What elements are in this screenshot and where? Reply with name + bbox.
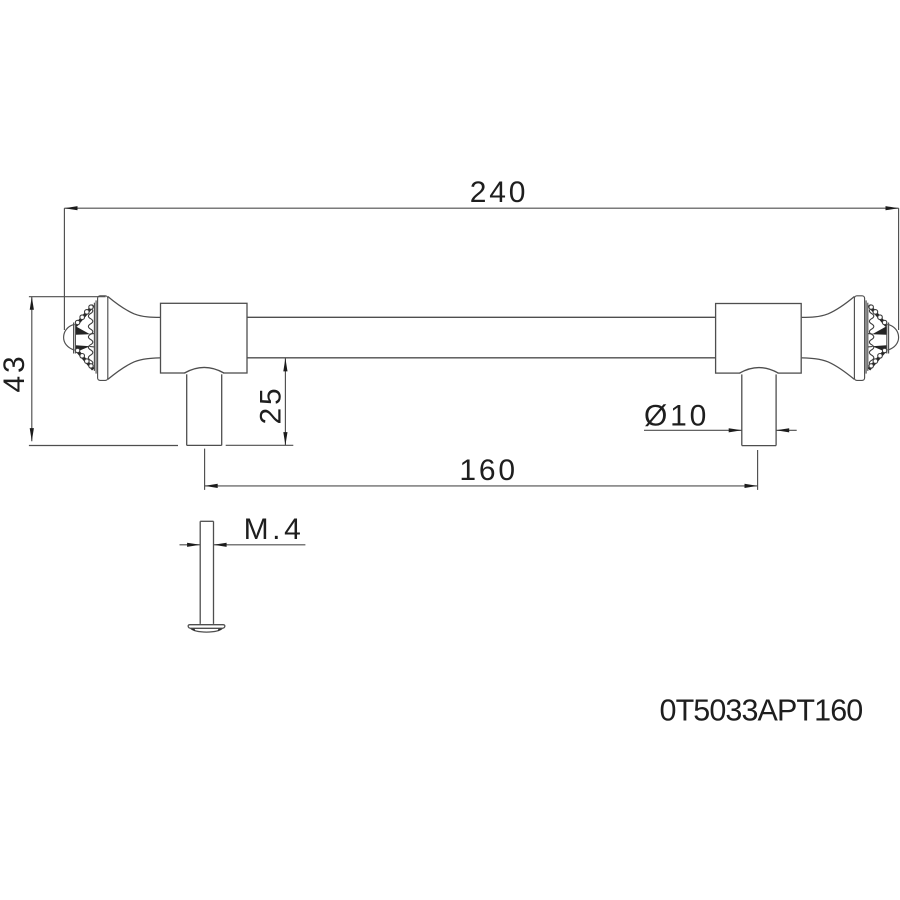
collar band disc xyxy=(98,296,108,381)
right post top fillet arc xyxy=(740,368,779,374)
dim 240 right extension xyxy=(898,208,900,330)
dim M4 left line xyxy=(180,544,201,546)
dim dia10 left line xyxy=(644,429,742,431)
bead bottom 2 xyxy=(80,354,85,359)
screw shaft left xyxy=(199,521,201,624)
trumpet bottom curve xyxy=(108,358,161,380)
right post left side xyxy=(741,373,743,446)
arrow 160 left xyxy=(205,484,218,488)
crown wedge lower xyxy=(76,345,90,352)
dim 240 line xyxy=(64,207,898,209)
left mounting block xyxy=(161,303,248,373)
svg-text:160: 160 xyxy=(459,454,517,487)
arrow 43 top xyxy=(30,297,34,310)
arrow 240 left xyxy=(64,206,77,210)
dome base line 1 xyxy=(73,323,75,354)
screw shaft top xyxy=(200,520,213,522)
dim 43 line xyxy=(31,297,33,442)
dim M4 right line xyxy=(214,544,306,546)
right finial (mirror of left) xyxy=(802,296,899,381)
arrow dia10 left (points right) xyxy=(729,428,742,432)
left finial group xyxy=(64,296,161,381)
arrow 25 bottom xyxy=(283,432,287,445)
dim 25 line xyxy=(284,359,286,446)
dimension graphics xyxy=(29,208,899,545)
handle bar top line xyxy=(247,316,716,318)
svg-text:Ø10: Ø10 xyxy=(644,399,709,432)
screw shaft right xyxy=(213,521,215,624)
bead top 2 xyxy=(80,315,85,320)
right mounting block xyxy=(716,304,802,374)
bead bottom 4 xyxy=(89,364,93,368)
bead top 3 xyxy=(85,310,90,315)
left post top fillet arc xyxy=(185,367,224,373)
crown wedge upper xyxy=(76,326,90,335)
dim texts xyxy=(0,176,709,546)
handle bar bottom line xyxy=(247,357,716,359)
trumpet top curve xyxy=(108,297,161,318)
svg-text:43: 43 xyxy=(0,354,31,393)
svg-text:25: 25 xyxy=(254,386,287,425)
bead bottom 3 xyxy=(85,359,90,364)
dome button tip xyxy=(64,325,74,350)
dim 160 line xyxy=(205,485,758,487)
crown top shade band xyxy=(76,305,94,326)
petal groove lower xyxy=(90,346,95,348)
svg-text:240: 240 xyxy=(470,176,528,209)
arrow M4 right (points left) xyxy=(214,543,227,547)
arrow 43 bottom xyxy=(30,428,34,441)
thin ring line 1 xyxy=(93,303,95,371)
petal groove upper xyxy=(90,333,95,335)
screw head shadow left xyxy=(190,629,195,631)
screw head shadow right xyxy=(218,629,223,631)
left post bottom xyxy=(187,444,222,446)
left post left side xyxy=(186,373,188,445)
dim 25 bottom extension xyxy=(226,444,294,446)
dim 240 left extension xyxy=(63,208,65,330)
arrow M4 left (points right) xyxy=(187,543,200,547)
dim 160 right extension xyxy=(757,450,759,490)
right post top mask xyxy=(740,372,777,375)
bead bottom 1 xyxy=(75,348,79,352)
screw xyxy=(188,521,225,632)
bead top 4 xyxy=(89,305,93,309)
svg-text:0T5033APT160: 0T5033APT160 xyxy=(660,693,863,727)
svg-text:M.4: M.4 xyxy=(244,513,305,546)
dim dia10 right line xyxy=(776,429,797,431)
dim 43 top extension xyxy=(29,296,106,298)
right post bottom xyxy=(742,445,776,447)
right post right side xyxy=(775,373,777,446)
arrowheads xyxy=(30,206,899,547)
screw head dome xyxy=(191,628,223,632)
left post right side xyxy=(221,373,223,445)
arrow dia10 right (points left) xyxy=(776,428,789,432)
crown bottom shade band xyxy=(76,349,94,370)
left post top mask xyxy=(185,372,223,375)
screw head band xyxy=(188,625,225,629)
bead top 1 xyxy=(75,320,79,324)
dim 43 bottom extension xyxy=(29,445,178,447)
dome base line 2 xyxy=(74,323,76,354)
arrow 25 top xyxy=(283,358,287,371)
arrow 160 right xyxy=(745,484,758,488)
dim 160 left extension xyxy=(204,449,206,490)
arrow 240 right xyxy=(886,206,899,210)
petal scallop wave column xyxy=(88,308,92,365)
thin ring line 2 xyxy=(95,300,97,373)
